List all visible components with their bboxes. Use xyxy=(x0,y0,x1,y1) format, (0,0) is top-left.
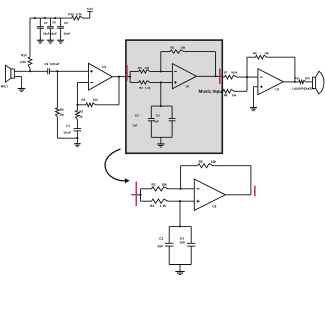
resistor R3 10k xyxy=(152,183,169,191)
wire xyxy=(56,71,58,108)
resistor R10 2.2k xyxy=(20,54,32,68)
wire xyxy=(234,77,247,91)
magnifier arrow xyxy=(105,149,130,183)
ground xyxy=(175,272,184,275)
junction xyxy=(214,75,216,77)
wire xyxy=(169,264,191,266)
wire xyxy=(254,87,258,108)
wire xyxy=(14,70,30,72)
wire xyxy=(57,70,88,72)
wire xyxy=(213,166,251,195)
op-amp U1 xyxy=(89,63,113,90)
ground xyxy=(57,40,64,43)
wire xyxy=(180,166,182,189)
wire xyxy=(14,77,21,89)
wire xyxy=(112,76,125,78)
wire xyxy=(76,131,78,138)
wire xyxy=(76,119,78,128)
ground xyxy=(37,40,44,43)
junction node A xyxy=(56,70,58,72)
op-amp U2 enlarged xyxy=(194,179,225,210)
wire xyxy=(161,51,170,53)
ground xyxy=(74,144,81,147)
highlight box xyxy=(126,40,222,153)
resistor R12 4.7k xyxy=(69,13,83,20)
capacitor C5 10uF xyxy=(57,18,70,40)
wire xyxy=(222,76,225,78)
wire xyxy=(283,81,298,83)
wire xyxy=(83,17,90,19)
wire xyxy=(151,136,172,138)
junction xyxy=(118,76,120,78)
wire xyxy=(160,82,162,106)
wire xyxy=(247,76,258,78)
resistor R5 10k xyxy=(198,160,216,167)
node red tick input xyxy=(126,65,128,81)
capacitor C2 0.01uF xyxy=(45,63,60,74)
wire xyxy=(30,70,48,72)
capacitor C4 1uF xyxy=(154,106,175,137)
resistor R9 1M xyxy=(56,108,64,117)
resistor R6 10k xyxy=(253,52,269,59)
capacitor C3 1uF xyxy=(132,106,154,137)
node red tick input xyxy=(135,182,137,207)
junction xyxy=(139,194,141,196)
junction xyxy=(160,105,162,107)
wire xyxy=(140,189,142,201)
junction summing node xyxy=(246,76,248,78)
resistor R11 100 xyxy=(295,77,310,83)
loudspeaker LS1 xyxy=(292,71,324,94)
resistor R1 22k xyxy=(82,99,98,107)
junction xyxy=(76,104,78,106)
wire xyxy=(56,117,58,138)
wire xyxy=(125,76,130,78)
resistor R7 500k xyxy=(224,71,237,79)
wire xyxy=(197,75,223,77)
ground xyxy=(47,40,54,43)
wire xyxy=(237,76,248,78)
wire xyxy=(169,225,191,227)
wire xyxy=(77,104,86,106)
capacitor C4 1uF enlarged xyxy=(180,226,196,264)
label Music Input xyxy=(199,90,224,94)
junction xyxy=(294,81,296,83)
op-amp U2 xyxy=(172,64,196,89)
junction xyxy=(179,225,181,227)
wire xyxy=(267,57,295,82)
ground xyxy=(157,144,165,147)
resistor R4 1.1k xyxy=(139,81,151,89)
node red tick output xyxy=(254,186,256,197)
junction xyxy=(29,70,31,72)
wire xyxy=(184,52,215,77)
microphone MIC1 xyxy=(1,65,14,87)
wire music input xyxy=(222,90,223,92)
capacitor C6 10uF xyxy=(47,18,57,40)
junction xyxy=(44,17,46,19)
wire xyxy=(150,70,173,72)
resistor R4 1.1k xyxy=(150,199,168,207)
junction xyxy=(34,17,36,19)
wire xyxy=(49,70,57,72)
wire xyxy=(151,105,172,107)
wire xyxy=(160,137,162,143)
junction xyxy=(160,70,162,72)
junction xyxy=(180,188,182,190)
wire xyxy=(225,194,251,196)
wire xyxy=(76,138,78,143)
wire xyxy=(129,71,131,82)
resistor R3 10k xyxy=(138,67,150,73)
junction xyxy=(129,76,131,78)
wire xyxy=(77,83,88,105)
wire xyxy=(168,200,194,202)
wire xyxy=(179,201,181,226)
wire xyxy=(76,105,78,111)
junction xyxy=(160,81,162,83)
power +5V supply xyxy=(87,8,93,18)
wire xyxy=(306,81,313,83)
junction xyxy=(54,17,56,19)
node red tick output xyxy=(219,69,221,85)
capacitor C7 10uF xyxy=(37,18,50,40)
ground xyxy=(18,89,25,92)
junction xyxy=(76,137,78,139)
wire xyxy=(247,57,256,77)
wire xyxy=(130,81,139,83)
wire xyxy=(179,265,181,272)
wire xyxy=(181,165,198,167)
wire xyxy=(96,77,120,105)
wire xyxy=(168,188,194,190)
capacitor C3 1uF enlarged xyxy=(158,226,174,264)
capacitor C1 10uF xyxy=(63,125,81,134)
wire top rail xyxy=(30,17,72,19)
wire xyxy=(150,81,173,83)
resistor R2 1k xyxy=(76,110,83,119)
wire enlarged input xyxy=(131,194,141,196)
wire xyxy=(29,18,31,57)
wire ground rail xyxy=(57,137,77,139)
wire xyxy=(141,188,152,190)
junction xyxy=(179,200,181,202)
resistor R5 10k xyxy=(170,47,185,54)
ground xyxy=(250,108,257,111)
wire xyxy=(160,52,162,72)
resistor R8 10k xyxy=(223,89,236,96)
wire xyxy=(29,68,31,71)
wire xyxy=(141,200,152,202)
op-amp U3 xyxy=(258,69,284,95)
wire xyxy=(130,70,139,72)
